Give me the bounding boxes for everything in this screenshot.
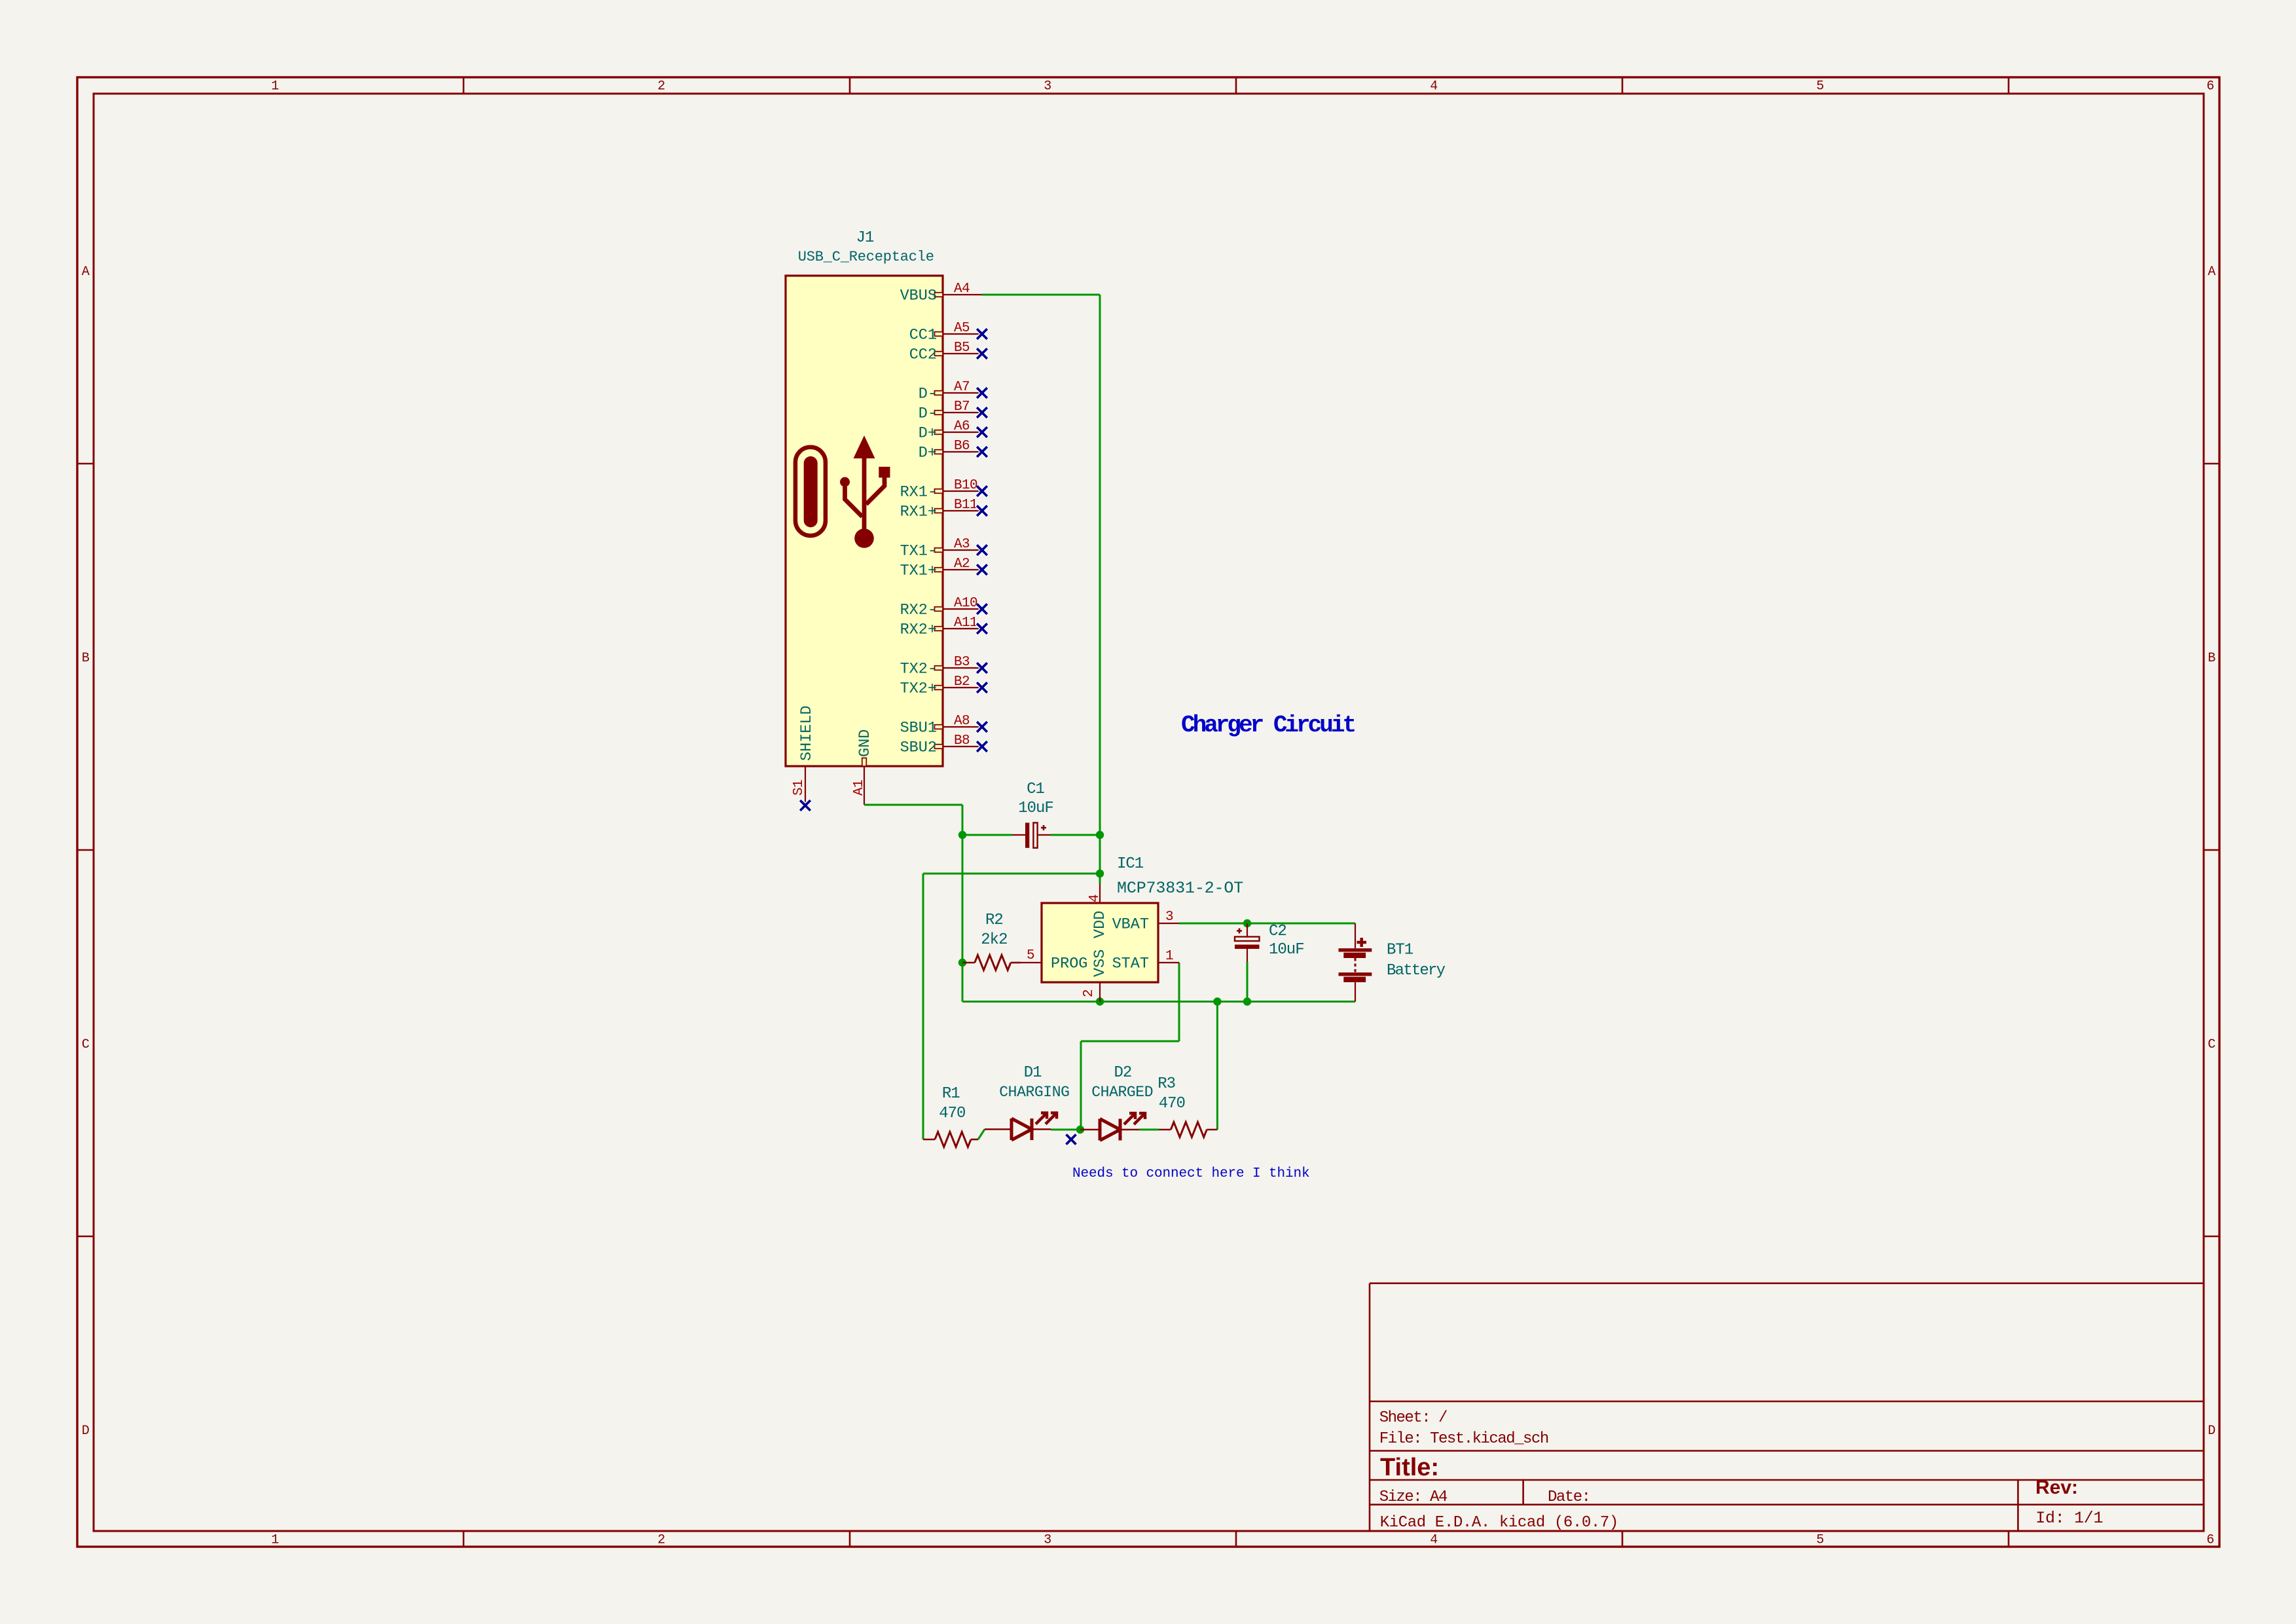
svg-text:RX1+: RX1+ (900, 504, 937, 521)
pin TX2+ B2 of J1 (900, 674, 982, 698)
svg-text:A10: A10 (954, 596, 977, 611)
svg-text:2: 2 (1082, 989, 1097, 997)
no-connect at B11 (977, 506, 987, 516)
no-connect at A2 (977, 564, 987, 575)
no-connect at A3 (977, 545, 987, 555)
wire R3 to GND rail (1216, 1002, 1218, 1130)
svg-text:Charger Circuit: Charger Circuit (1181, 712, 1355, 739)
C2 value 10uF (1269, 941, 1304, 959)
no-connect at A7 (977, 388, 987, 398)
pin VSS 2 of IC1 (1082, 950, 1109, 1002)
svg-text:R3: R3 (1157, 1075, 1175, 1093)
svg-text:A3: A3 (954, 537, 970, 552)
svg-text:RX2-: RX2- (900, 602, 937, 619)
svg-text:D2: D2 (1114, 1064, 1131, 1082)
svg-text:A: A (2208, 265, 2215, 280)
pin TX1- A3 of J1 (900, 537, 982, 561)
svg-text:4: 4 (1087, 895, 1102, 902)
svg-text:10uF: 10uF (1018, 800, 1053, 817)
battery BT1 (1339, 923, 1372, 1002)
pin D+ A6 of J1 (919, 419, 982, 443)
svg-text:2: 2 (657, 1533, 665, 1548)
C2 reference label (1269, 923, 1286, 940)
no-connect at S1 (800, 800, 811, 811)
junction R2/GND (958, 959, 966, 967)
C1 reference label (1027, 781, 1044, 798)
pin GND A1 of J1 (852, 729, 874, 805)
wire C1 right to VBUS (1051, 834, 1100, 836)
svg-text:File: Test.kicad_sch: File: Test.kicad_sch (1379, 1430, 1548, 1448)
title block (1370, 1283, 2204, 1532)
svg-text:10uF: 10uF (1269, 941, 1304, 959)
svg-text:B11: B11 (954, 498, 977, 513)
pin SBU2 B8 of J1 (900, 733, 982, 757)
R3 value 470 (1159, 1095, 1185, 1113)
svg-text:SHIELD: SHIELD (798, 705, 816, 761)
svg-text:C1: C1 (1027, 781, 1044, 798)
IC1 reference label (1117, 855, 1144, 873)
svg-text:Needs to connect here I think: Needs to connect here I think (1072, 1166, 1310, 1181)
junction VSS/GND rail (1096, 997, 1104, 1005)
svg-text:VBAT: VBAT (1112, 916, 1149, 934)
op-amp/IC U1 = IC1 MCP73831-2-OT body (1042, 903, 1158, 982)
svg-text:3: 3 (1165, 910, 1173, 925)
pin TX2- B3 of J1 (900, 655, 982, 678)
resistor R3 (1159, 1122, 1217, 1137)
svg-text:470: 470 (1159, 1095, 1185, 1113)
junction C1-left/GND (958, 831, 966, 839)
pin RX1+ B11 of J1 (900, 498, 982, 521)
resistor R1 (923, 1132, 978, 1147)
D2 reference label (1114, 1064, 1131, 1082)
R3 reference label (1157, 1075, 1175, 1093)
pin RX2- A10 of J1 (900, 596, 982, 619)
pin STAT 1 of IC1 (1112, 949, 1179, 973)
svg-text:B3: B3 (954, 655, 970, 670)
svg-text:D: D (82, 1424, 90, 1439)
svg-text:B6: B6 (954, 439, 970, 454)
svg-text:4: 4 (1430, 1533, 1438, 1548)
svg-text:2: 2 (657, 79, 665, 94)
wire D2 cathode to R3 (1139, 1129, 1159, 1131)
svg-text:B10: B10 (954, 478, 977, 493)
capacitor C2 (1235, 923, 1260, 962)
capacitor C1 (1012, 822, 1051, 847)
pin RX2+ A11 of J1 (900, 616, 982, 639)
C1 value 10uF (1018, 800, 1053, 817)
junction R3/GND rail (1213, 997, 1221, 1005)
svg-text:C: C (2208, 1037, 2215, 1052)
svg-text:S1: S1 (792, 780, 807, 796)
pin CC1 A5 of J1 (909, 321, 982, 344)
svg-text:A2: A2 (954, 557, 970, 572)
svg-text:A11: A11 (954, 616, 977, 631)
no-connect at B7 (977, 407, 987, 418)
svg-text:B8: B8 (954, 733, 970, 748)
no-connect at A11 (977, 623, 987, 634)
svg-text:4: 4 (1430, 79, 1438, 94)
wire D1 cathode to node (1051, 1129, 1080, 1131)
svg-text:A1: A1 (852, 780, 867, 796)
wire bottom GND rail (962, 1001, 1355, 1003)
svg-text:B: B (82, 651, 90, 666)
svg-text:1: 1 (271, 79, 279, 94)
pin CC2 B5 of J1 (909, 341, 982, 364)
wire GND from J1 A1 down left rail (864, 805, 962, 1002)
no-connect at B10 (977, 486, 987, 496)
svg-text:CHARGED: CHARGED (1091, 1084, 1153, 1101)
no-connect at B8 (977, 741, 987, 752)
svg-text:5: 5 (1816, 79, 1824, 94)
no-connect at B6 (977, 447, 987, 457)
svg-text:A4: A4 (954, 282, 970, 297)
no-connect at LED node (1066, 1135, 1076, 1145)
pin SHIELD S1 of J1 (792, 705, 816, 805)
junction C1-right/VBUS (1096, 831, 1104, 839)
BT1 reference label (1387, 942, 1413, 959)
pin VDD 4 of IC1 (1087, 884, 1109, 938)
svg-text:GND: GND (856, 729, 874, 757)
wire VBAT from IC1 pin 3 to battery (1179, 923, 1355, 925)
svg-text:Title:: Title: (1380, 1454, 1439, 1481)
J1 reference label (856, 229, 874, 247)
junction LED node (1076, 1126, 1084, 1134)
note Needs to connect here I think (1072, 1166, 1310, 1181)
wire C1 left to GND rail (962, 834, 1012, 836)
pin D+ B6 of J1 (919, 439, 982, 462)
wire C2 bottom to GND rail (1247, 962, 1248, 1002)
svg-text:D: D (2208, 1424, 2215, 1439)
wire R1 to D1 diagonal (978, 1130, 985, 1140)
svg-text:SBU1: SBU1 (900, 720, 937, 737)
svg-text:CC1: CC1 (909, 327, 937, 344)
R1 value 470 (939, 1105, 965, 1122)
junction C2/GND rail (1243, 997, 1251, 1005)
svg-text:D-: D- (919, 386, 937, 403)
svg-text:D-: D- (919, 405, 937, 423)
D1 reference label (1024, 1064, 1042, 1082)
svg-text:Battery: Battery (1387, 962, 1446, 980)
svg-text:Id: 1/1: Id: 1/1 (2035, 1509, 2103, 1528)
svg-text:R2: R2 (985, 912, 1003, 929)
svg-text:D+: D+ (919, 425, 937, 443)
svg-text:PROG: PROG (1051, 955, 1087, 973)
svg-text:3: 3 (1044, 79, 1051, 94)
BT1 value Battery (1387, 962, 1446, 980)
svg-text:A: A (82, 265, 90, 280)
junction VDD node (1096, 870, 1104, 877)
svg-text:1: 1 (1165, 949, 1173, 964)
svg-text:CC2: CC2 (909, 346, 937, 364)
svg-text:SBU2: SBU2 (900, 739, 937, 757)
D2 value CHARGED (1091, 1084, 1153, 1101)
svg-text:470: 470 (939, 1105, 965, 1122)
junction C2/VBAT (1243, 919, 1251, 927)
svg-text:6: 6 (2206, 79, 2214, 94)
svg-text:R1: R1 (942, 1085, 960, 1103)
svg-text:B2: B2 (954, 674, 970, 690)
svg-text:KiCad E.D.A. kicad (6.0.7): KiCad E.D.A. kicad (6.0.7) (1380, 1514, 1618, 1532)
svg-text:RX1-: RX1- (900, 484, 937, 502)
svg-text:D1: D1 (1024, 1064, 1042, 1082)
R2 value 2k2 (981, 931, 1007, 949)
svg-text:A8: A8 (954, 714, 970, 729)
svg-text:TX1-: TX1- (900, 543, 937, 561)
IC1 value MCP73831-2-OT (1117, 879, 1243, 898)
svg-text:C: C (82, 1037, 90, 1052)
note Charger Circuit (1181, 712, 1355, 739)
svg-text:USB_C_Receptacle: USB_C_Receptacle (798, 249, 934, 265)
svg-text:BT1: BT1 (1387, 942, 1413, 959)
pin D- B7 of J1 (919, 399, 982, 423)
svg-text:B7: B7 (954, 399, 970, 415)
LED D2 CHARGED (1080, 1113, 1145, 1141)
svg-text:5: 5 (1027, 948, 1034, 963)
D1 value CHARGING (999, 1084, 1069, 1101)
wire VBUS from J1 A4 to C1/IC1 (982, 295, 1100, 874)
wire VDD junction to IC1 pin 4 (1099, 874, 1101, 884)
svg-text:MCP73831-2-OT: MCP73831-2-OT (1117, 879, 1243, 898)
LED D1 CHARGING (985, 1113, 1057, 1141)
R1 reference label (942, 1085, 960, 1103)
svg-text:IC1: IC1 (1117, 855, 1144, 873)
no-connect at B2 (977, 682, 987, 693)
no-connect at A5 (977, 329, 987, 339)
svg-text:Sheet: /: Sheet: / (1379, 1409, 1448, 1427)
svg-text:Rev:: Rev: (2035, 1477, 2078, 1498)
no-connect at A8 (977, 722, 987, 732)
no-connect at B5 (977, 348, 987, 359)
svg-text:2k2: 2k2 (981, 931, 1007, 949)
pin VBUS A4 of J1 (900, 282, 982, 305)
J1 value USB_C_Receptacle (798, 249, 934, 265)
svg-text:TX2-: TX2- (900, 661, 937, 678)
svg-text:B5: B5 (954, 341, 970, 356)
svg-text:VBUS: VBUS (900, 287, 937, 305)
svg-text:RX2+: RX2+ (900, 621, 937, 639)
svg-text:A5: A5 (954, 321, 970, 336)
svg-text:C2: C2 (1269, 923, 1286, 940)
svg-text:Size: A4: Size: A4 (1379, 1488, 1448, 1506)
pin D- A7 of J1 (919, 380, 982, 403)
svg-text:D+: D+ (919, 445, 937, 462)
pin VBAT 3 of IC1 (1112, 910, 1179, 934)
pin RX1- B10 of J1 (900, 478, 982, 502)
resistor R2 (962, 955, 1021, 970)
svg-text:TX1+: TX1+ (900, 563, 937, 580)
connector J1 USB_C_Receptacle body (786, 276, 943, 766)
svg-text:1: 1 (271, 1533, 279, 1548)
svg-text:STAT: STAT (1112, 955, 1149, 973)
USB logo (795, 435, 890, 548)
R2 reference label (985, 912, 1003, 929)
svg-text:B: B (2208, 651, 2215, 666)
wire VSS horizontal to R1 column (923, 874, 1100, 1139)
svg-text:J1: J1 (856, 229, 874, 247)
pin SBU1 A8 of J1 (900, 714, 982, 737)
svg-text:A6: A6 (954, 419, 970, 434)
wire STAT from IC1 pin 1 to LED node (1081, 963, 1179, 1130)
svg-text:Date:: Date: (1548, 1488, 1590, 1506)
svg-text:3: 3 (1044, 1533, 1051, 1548)
no-connect at B3 (977, 663, 987, 673)
pin TX1+ A2 of J1 (900, 557, 982, 580)
no-connect at A6 (977, 427, 987, 437)
svg-text:VSS: VSS (1091, 950, 1109, 977)
svg-text:TX2+: TX2+ (900, 680, 937, 698)
svg-text:VDD: VDD (1091, 911, 1109, 938)
svg-text:A7: A7 (954, 380, 970, 395)
svg-text:CHARGING: CHARGING (999, 1084, 1069, 1101)
no-connect at A10 (977, 604, 987, 614)
pin PROG 5 of IC1 (1021, 948, 1087, 973)
svg-text:5: 5 (1816, 1533, 1824, 1548)
svg-text:6: 6 (2206, 1533, 2214, 1548)
